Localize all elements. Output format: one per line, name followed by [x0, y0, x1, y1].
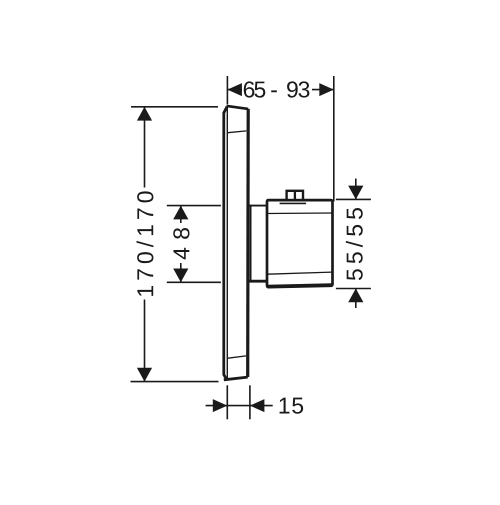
dim 15: right extension line: [249, 385, 251, 419]
arrow 55/55 bottom: [348, 289, 363, 303]
escutcheon plate front face edge: [224, 107, 227, 380]
dim 55/55: bottom arrow tail: [355, 289, 357, 309]
label 65 - 93: [244, 81, 310, 97]
knob groove top: [267, 212, 332, 215]
dim 55/55: top arrow tail: [355, 179, 357, 200]
sleeve top edge: [249, 205, 267, 207]
plate back slab left edge: [226, 105, 228, 380]
knob bottom edge (heavier): [267, 285, 332, 287]
dim 48: dimension line: [180, 206, 182, 283]
label 170/170: [137, 191, 154, 295]
arrow 65-93 left: [227, 83, 242, 96]
arrow 48 bottom: [173, 269, 188, 283]
arrow 15 right: [250, 399, 265, 412]
dim 170/170: bottom extension line: [131, 381, 219, 383]
dim 48: top extension line: [167, 205, 221, 207]
dim 55/55: bottom extension line: [336, 288, 371, 290]
dim 55/55: top extension line: [336, 198, 371, 200]
dim 15: dimension line with tails: [206, 405, 273, 407]
dim 65-93: right extension line: [333, 76, 335, 202]
arrow 15 left: [213, 399, 228, 412]
white gap for text 65-93: [242, 81, 312, 99]
arrow 170/170 top: [137, 107, 152, 121]
label 15: [280, 398, 304, 414]
arrow 48 top: [173, 206, 188, 220]
dim 170/170: dimension line: [144, 107, 146, 382]
plate right edge: [246, 109, 250, 377]
dim 65-93: left extension line: [226, 76, 228, 104]
plate bottom edge: [224, 377, 248, 380]
button outline: [287, 191, 303, 200]
plate top edge: [227, 106, 249, 109]
knob groove bottom: [267, 272, 332, 274]
sleeve left edge (against plate): [250, 205, 252, 282]
white gap for text 170/170: [136, 188, 154, 300]
dim 15: left extension line: [226, 385, 228, 419]
button divider: [294, 191, 296, 200]
label 55/55: [346, 208, 363, 280]
knob body outline: [267, 200, 333, 287]
plate inner top line: [228, 131, 247, 133]
arrow 65-93 right: [319, 83, 334, 96]
arrow 55/55 top: [348, 186, 363, 200]
white gap for text 48: [172, 223, 190, 263]
dim 65-93: dimension line: [227, 89, 333, 91]
plate inner bottom line: [228, 356, 246, 358]
label 48: [173, 228, 189, 259]
dim 170/170: top extension line: [131, 106, 218, 108]
arrow 170/170 bottom: [137, 368, 152, 382]
dim 48: bottom extension line: [167, 281, 221, 283]
sleeve bottom edge: [249, 280, 267, 283]
button flange line: [280, 202, 307, 204]
